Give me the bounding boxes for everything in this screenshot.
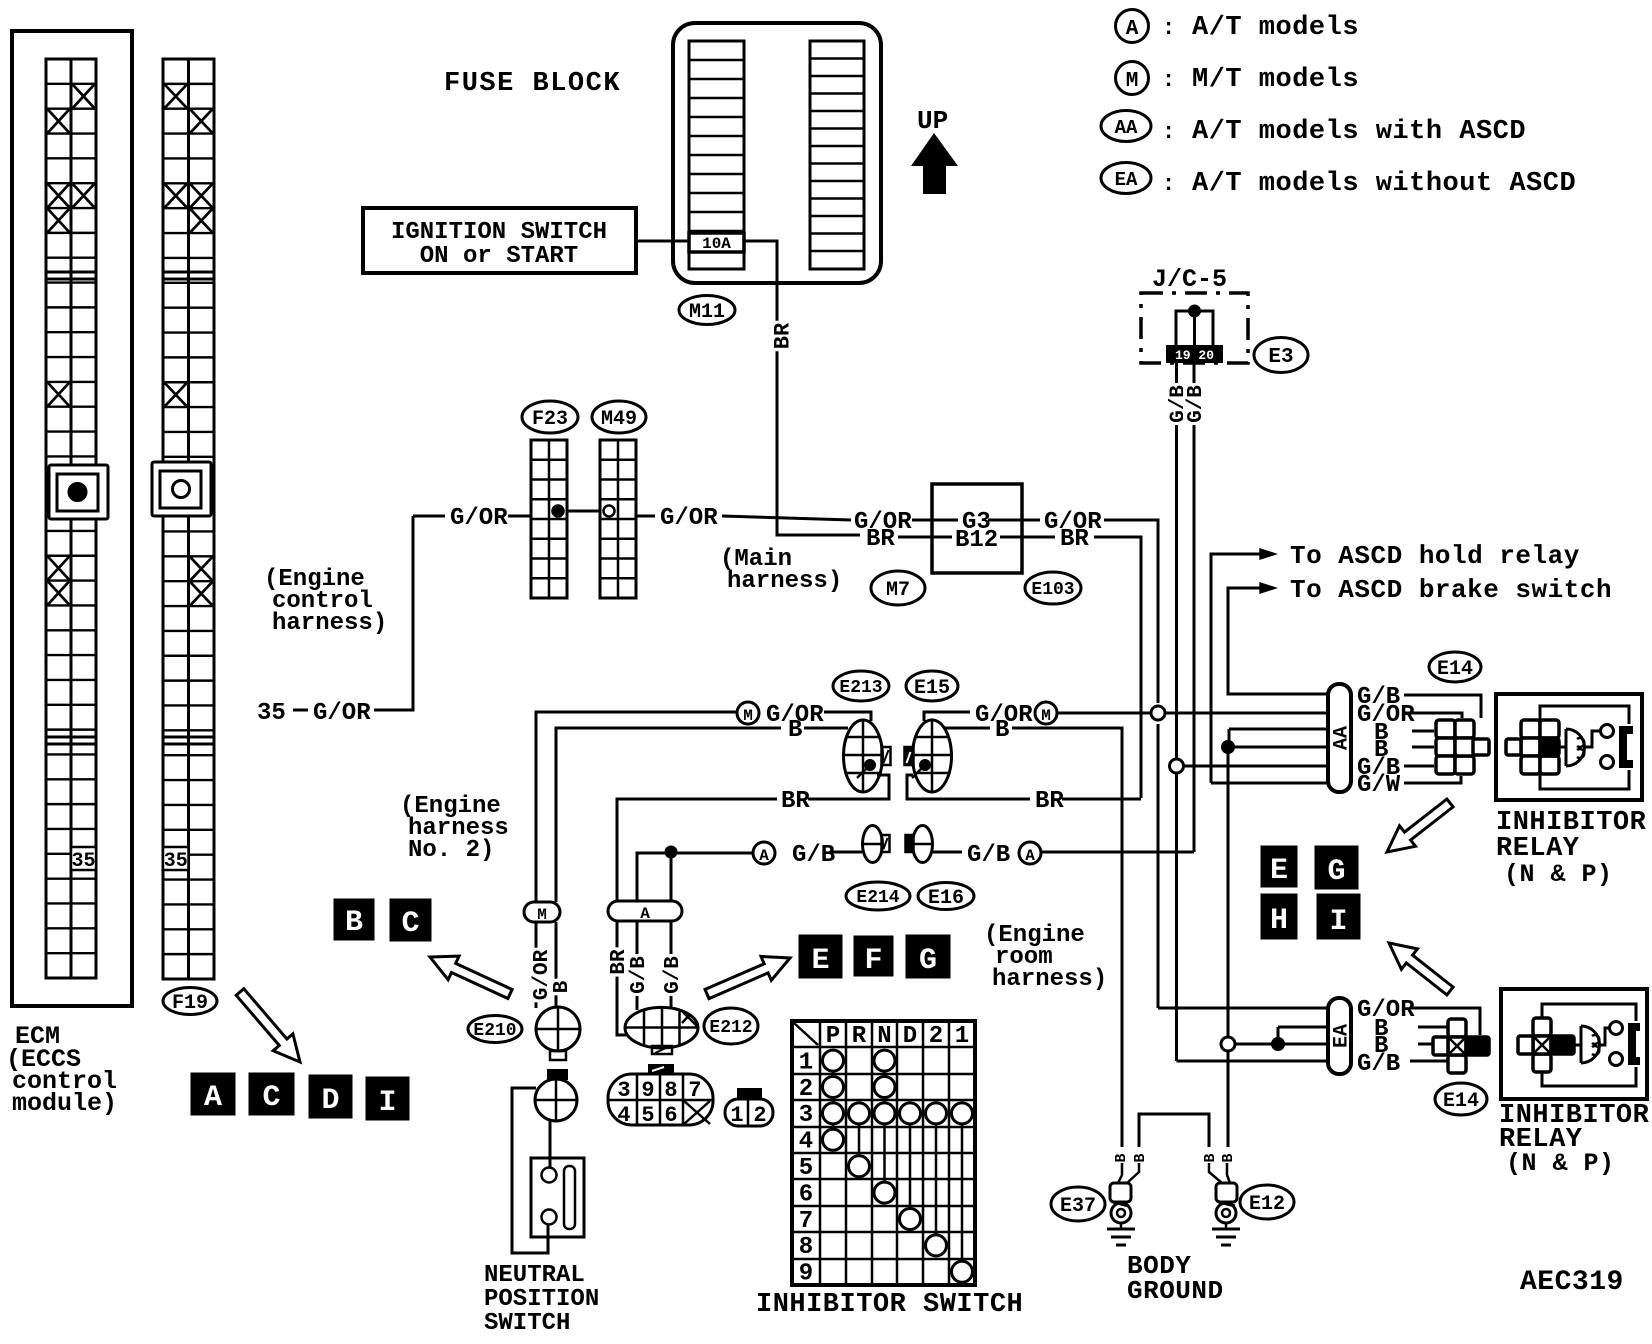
svg-text:module): module): [12, 1089, 117, 1118]
marker box E2: [1262, 847, 1296, 886]
svg-text:AEC319: AEC319: [1520, 1267, 1624, 1298]
connector E14 oval label: [1429, 652, 1481, 682]
wire B AA pin4: [1228, 746, 1328, 749]
svg-text:3: 3: [799, 1102, 813, 1129]
connector 1-2 pill: [725, 1099, 773, 1126]
inhibitor switch table: [792, 1021, 975, 1285]
svg-text:E214: E214: [856, 888, 899, 908]
svg-text:M11: M11: [689, 301, 725, 324]
connector E14 bottom body: [1448, 1019, 1466, 1037]
svg-text:UP: UP: [917, 106, 948, 136]
legend symbol M circle: [1116, 62, 1149, 95]
relay connector cluster bottom: [1533, 1018, 1551, 1036]
connector E12 oval label: [1240, 1185, 1294, 1219]
svg-text:M: M: [1041, 707, 1051, 725]
svg-text:To ASCD hold relay: To ASCD hold relay: [1290, 541, 1580, 571]
svg-text:1: 1: [799, 1049, 813, 1076]
marker box H: [1262, 895, 1296, 938]
F23 terminal dot: [553, 506, 564, 517]
connector AA pill: [1328, 684, 1351, 792]
fuse column left: [689, 41, 744, 269]
wire G/B right from E16: [931, 851, 962, 854]
wire G/OR right of M49: [637, 515, 655, 518]
svg-text:19 20: 19 20: [1175, 348, 1214, 363]
svg-text:I: I: [1329, 905, 1347, 939]
connector M pill: [524, 902, 560, 922]
junction circle on G/OR wire: [1151, 706, 1165, 720]
svg-text:BR: BR: [781, 788, 810, 815]
ground bridge wire E37-E12: [1139, 1114, 1209, 1147]
svg-text:EA: EA: [1330, 1024, 1353, 1048]
wire to ASCD brake switch: [1228, 588, 1261, 694]
connector A pill: [608, 901, 682, 921]
wire G/B AA pin5 from J/C-5: [1177, 765, 1329, 768]
wire loop neutral position switch: [512, 1088, 548, 1253]
connector 3-9-8-7 pill: [608, 1074, 713, 1125]
svg-text:E: E: [1270, 854, 1288, 888]
svg-text:6: 6: [799, 1181, 813, 1208]
svg-text::: :: [1162, 120, 1175, 145]
relay connector cluster top: [1521, 720, 1540, 738]
svg-text:C: C: [262, 1081, 280, 1115]
wire from ECM pin 35 up to F23: [374, 516, 413, 710]
svg-text:harness): harness): [992, 966, 1107, 993]
svg-text:AA: AA: [1115, 117, 1138, 139]
IGNITION SWITCH box: [363, 208, 636, 273]
connector E16 oval label: [918, 883, 974, 910]
svg-text:2: 2: [799, 1076, 813, 1103]
svg-text:2: 2: [929, 1023, 943, 1050]
svg-text:G/B: G/B: [662, 956, 685, 994]
svg-text:(N & P): (N & P): [1504, 860, 1613, 889]
wire B to EA pin3: [1228, 1043, 1328, 1046]
wire G/B to AA pin1: [1228, 588, 1328, 694]
wire G/B from J/C-5 pin 19 down: [1175, 362, 1178, 764]
svg-text:A: A: [640, 905, 650, 923]
wire G/OR below M pill: [535, 922, 538, 1008]
ground connector E37: [1118, 1163, 1122, 1183]
arrow from E14 bottom to E G H I markers: [1389, 943, 1453, 995]
ECM strip 2 terminal circle: [173, 481, 190, 498]
svg-text:M: M: [1126, 70, 1139, 93]
1-2 pill top tab: [738, 1089, 761, 1099]
svg-text:NEUTRAL: NEUTRAL: [484, 1262, 585, 1289]
connector E214 body: [863, 826, 883, 863]
svg-text:M49: M49: [601, 408, 637, 431]
svg-text:(N & P): (N & P): [1506, 1149, 1615, 1178]
marker box D: [310, 1076, 351, 1117]
marker box C2: [391, 900, 430, 940]
connector F23 grid: [531, 440, 567, 598]
svg-text::: :: [1162, 68, 1175, 93]
svg-text:C: C: [401, 907, 419, 941]
svg-text:E: E: [811, 944, 829, 978]
wires AA labels to E14: [1404, 695, 1481, 718]
wire to ASCD hold relay: [1211, 554, 1261, 783]
svg-text:F23: F23: [532, 408, 568, 431]
svg-text:FUSE BLOCK: FUSE BLOCK: [444, 69, 621, 99]
ECM connector strip 2 (F19): [163, 59, 214, 979]
svg-text:G: G: [1327, 855, 1345, 889]
svg-text:G/B: G/B: [628, 956, 651, 994]
junction connector J/C-5 dashed box: [1141, 293, 1248, 363]
relay contacts bottom: [1610, 1022, 1623, 1035]
svg-text:P: P: [826, 1023, 840, 1050]
connector M49 grid: [600, 440, 636, 598]
connector M7 oval: [871, 571, 925, 605]
svg-text:BR: BR: [1035, 788, 1064, 815]
relay contacts top: [1601, 725, 1614, 738]
svg-text:E103: E103: [1031, 580, 1074, 600]
svg-text:A/T models: A/T models: [1192, 13, 1359, 43]
svg-text:F: F: [864, 944, 882, 978]
svg-text:F19: F19: [172, 992, 208, 1015]
svg-text:INHIBITOR SWITCH: INHIBITOR SWITCH: [756, 1290, 1023, 1320]
svg-text::: :: [1162, 172, 1175, 197]
svg-text:B: B: [1202, 1153, 1219, 1162]
svg-text:G/B: G/B: [1185, 385, 1208, 423]
connector E14 bottom oval label: [1435, 1083, 1487, 1115]
svg-text:A: A: [204, 1081, 222, 1115]
junction circle G/B pin5: [1170, 759, 1184, 773]
svg-text:I: I: [378, 1086, 396, 1120]
wire B to EA pin2: [1278, 1026, 1328, 1029]
svg-text:E14: E14: [1443, 1090, 1479, 1113]
connector E210 oval label: [468, 1016, 522, 1043]
wire BR from fuse 10A down to main harness: [744, 241, 860, 535]
svg-text:E12: E12: [1249, 1193, 1285, 1216]
wire BR left to E213: [617, 799, 777, 901]
svg-text:E16: E16: [928, 887, 964, 910]
connector M11 oval: [679, 296, 735, 325]
svg-text:D: D: [321, 1084, 339, 1118]
ground symbol E37: [1120, 1223, 1123, 1229]
svg-text:M: M: [743, 707, 753, 725]
svg-text:2: 2: [753, 1103, 766, 1128]
connector M49 oval: [592, 401, 646, 433]
svg-text:POSITION: POSITION: [484, 1286, 599, 1313]
marker box F: [855, 937, 892, 975]
svg-text:B: B: [1220, 1153, 1237, 1162]
svg-text:B12: B12: [955, 527, 998, 554]
wire G/OR right from E15 to AA: [924, 712, 970, 721]
legend symbol AA oval: [1101, 111, 1151, 142]
marker box B: [335, 900, 373, 939]
svg-text:A/T models without ASCD: A/T models without ASCD: [1192, 169, 1576, 199]
connector E214 oval label: [846, 882, 910, 910]
svg-text:R: R: [852, 1023, 867, 1050]
svg-text:A/T models with ASCD: A/T models with ASCD: [1192, 117, 1526, 147]
junction circle EA B pin3: [1221, 1037, 1235, 1051]
connector E210 body: [536, 1007, 580, 1051]
svg-text:BR: BR: [770, 322, 795, 349]
svg-text:E15: E15: [914, 677, 950, 700]
svg-text:E210: E210: [473, 1021, 516, 1041]
svg-text:E212: E212: [709, 1018, 752, 1038]
ground connector E12: [1209, 1163, 1222, 1183]
marker box I2: [1318, 895, 1359, 938]
marker box C: [250, 1074, 293, 1114]
wire B left to E213: [556, 728, 781, 902]
svg-text:BR: BR: [866, 526, 895, 553]
wire label B ground 4: [1219, 1151, 1235, 1164]
svg-text:IGNITION SWITCH: IGNITION SWITCH: [391, 219, 607, 246]
svg-text:N: N: [877, 1023, 891, 1050]
fuse 10A cell: [689, 233, 744, 252]
svg-text:4: 4: [617, 1103, 630, 1128]
svg-text:6: 6: [664, 1103, 677, 1128]
wire BR below A pill to E212: [617, 921, 626, 1035]
connector below E210 body: [548, 1070, 567, 1079]
svg-text:5: 5: [799, 1155, 813, 1182]
3987 pill top tab: [649, 1065, 673, 1074]
UP arrow: [911, 133, 958, 194]
wire G/B left with junction dot: [637, 853, 666, 901]
svg-text:BR: BR: [1060, 526, 1089, 553]
wire B below M pill: [555, 922, 558, 1008]
svg-text:E14: E14: [1437, 658, 1473, 681]
wire E210 to neutral position switch: [549, 1121, 552, 1168]
connector E14 body: [1436, 720, 1455, 738]
relay internal wires top: [1540, 706, 1629, 724]
junction box G3/B12: [932, 484, 1022, 573]
svg-text:1: 1: [730, 1103, 743, 1128]
wire F23-M49 link: [567, 510, 600, 513]
relay coil bottom: [1581, 1026, 1600, 1063]
arrow to E F G markers: [705, 956, 790, 998]
svg-text:B: B: [1113, 1153, 1130, 1162]
svg-text:B: B: [1132, 1153, 1149, 1162]
node dot EA B junction: [1272, 1038, 1284, 1050]
svg-text:B: B: [788, 717, 802, 744]
svg-text:8: 8: [799, 1234, 813, 1261]
connector F19 oval: [163, 988, 217, 1015]
node A circle left: [753, 842, 775, 864]
relay switch bracket top: [1619, 726, 1633, 768]
svg-text:G/B: G/B: [967, 842, 1010, 869]
svg-text:E3: E3: [1268, 346, 1293, 369]
svg-text:A: A: [759, 847, 769, 865]
connector EA pill: [1328, 998, 1351, 1074]
neutral position switch box: [531, 1158, 584, 1237]
svg-text::: :: [1162, 16, 1175, 41]
wire G/OR to EA pin1: [1158, 1007, 1328, 1010]
svg-text:G/B: G/B: [1357, 1051, 1400, 1078]
legend symbol EA oval: [1101, 163, 1151, 194]
svg-text:G/W: G/W: [1357, 772, 1401, 799]
relay switch bracket bottom: [1628, 1023, 1640, 1065]
fuse column right: [810, 41, 864, 269]
wire G/B to EA pin4: [1177, 1060, 1329, 1063]
J/C-5 internal pins: [1176, 311, 1213, 348]
ECM (ECCS control module) box: [12, 31, 132, 1006]
svg-text:G/OR: G/OR: [313, 700, 371, 727]
node M circle right: [1035, 702, 1057, 724]
relay coil top: [1566, 729, 1585, 766]
wire label BR vertical: [770, 321, 793, 351]
svg-text:AA: AA: [1330, 726, 1353, 750]
svg-text:harness): harness): [727, 568, 842, 595]
wire G/B from J/C-5 pin 20 down to A-circle wire: [1193, 362, 1196, 852]
legend symbol A circle: [1116, 10, 1149, 43]
svg-text:E213: E213: [839, 678, 882, 698]
table header diagonal: [794, 1023, 818, 1045]
connector F23 oval: [522, 401, 578, 433]
svg-text:No. 2): No. 2): [408, 837, 494, 864]
svg-text:G/OR: G/OR: [450, 505, 508, 532]
connector E3 oval: [1254, 338, 1308, 373]
ECM strip 1 terminal dot: [69, 484, 86, 501]
svg-text:A: A: [1126, 18, 1139, 41]
connector E15 oval label: [906, 671, 958, 701]
inhibitor relay box top: [1496, 694, 1642, 800]
svg-text:B: B: [345, 906, 363, 940]
ground symbol E12: [1225, 1223, 1228, 1229]
wire G/W AA pin6: [1211, 782, 1328, 785]
svg-text:harness): harness): [272, 610, 387, 637]
svg-text:A: A: [1025, 847, 1035, 865]
svg-text:G/B: G/B: [792, 842, 835, 869]
svg-text:G/OR: G/OR: [660, 505, 718, 532]
svg-text:7: 7: [799, 1208, 813, 1235]
connector E37 oval label: [1051, 1187, 1105, 1221]
svg-text:B: B: [995, 717, 1009, 744]
marker box I: [367, 1078, 408, 1119]
svg-text:E37: E37: [1060, 1195, 1096, 1218]
connector E212 oval label: [704, 1008, 758, 1044]
wire ignition switch to fuse: [636, 240, 689, 243]
svg-text:M7: M7: [886, 579, 910, 602]
wire label B ground 2: [1131, 1151, 1147, 1164]
svg-text:8: 8: [664, 1078, 677, 1103]
marker box G2: [1316, 847, 1357, 888]
svg-text:35: 35: [257, 700, 286, 727]
svg-text:ON or START: ON or START: [420, 243, 578, 270]
svg-text:J/C-5: J/C-5: [1152, 265, 1227, 294]
arrow to B C markers: [430, 956, 512, 998]
svg-text:G: G: [919, 944, 937, 978]
svg-text:35: 35: [71, 850, 95, 873]
arrow to A C D I markers: [236, 989, 300, 1062]
wire G/B 2 below A pill to E212: [670, 921, 673, 1009]
svg-text:M: M: [537, 906, 547, 924]
node A circle right: [1019, 842, 1041, 864]
svg-text:4: 4: [799, 1129, 813, 1156]
wire label B ground 3: [1201, 1151, 1217, 1164]
svg-text:35: 35: [164, 850, 188, 873]
svg-text:D: D: [903, 1023, 917, 1050]
marker box E: [800, 936, 841, 977]
wire B vertical AA pins3-4 down to E12 ground: [1228, 729, 1231, 747]
wire G/OR left of F23: [508, 515, 531, 518]
svg-text:10A: 10A: [702, 235, 731, 253]
marker box G: [907, 936, 949, 977]
svg-text:SWITCH: SWITCH: [484, 1310, 570, 1337]
M49 terminal circle: [604, 506, 615, 517]
connector E16 body: [913, 826, 933, 863]
svg-text:3: 3: [617, 1078, 630, 1103]
wire label B ground 1: [1112, 1151, 1128, 1164]
connector E213 oval label: [833, 671, 889, 701]
table contact circles: [823, 1050, 844, 1071]
svg-text:1: 1: [955, 1023, 969, 1050]
wire G/OR M-circle left: [536, 712, 737, 902]
arrow from E14 to E G H I markers: [1387, 799, 1453, 852]
wire BR right from E15 up to B12: [907, 775, 1030, 799]
svg-text:9: 9: [641, 1078, 654, 1103]
J/C-5 pin number strip 19-20: [1167, 346, 1222, 362]
wire B right from E15 down to E37 ground: [944, 727, 990, 730]
connector E103 oval: [1025, 572, 1081, 604]
wires EA labels to E14 bottom: [1410, 1008, 1480, 1035]
svg-text:B: B: [551, 980, 574, 993]
svg-text:M/T models: M/T models: [1192, 65, 1359, 95]
marker box A: [192, 1074, 234, 1114]
svg-text:7: 7: [688, 1078, 701, 1103]
svg-text:9: 9: [799, 1261, 813, 1288]
svg-text:EA: EA: [1115, 169, 1138, 191]
inhibitor relay box bottom: [1501, 989, 1647, 1099]
svg-text:H: H: [1270, 904, 1288, 938]
svg-text:5: 5: [641, 1103, 654, 1128]
relay internal wires bottom: [1542, 1004, 1636, 1021]
node dot AA B junction: [1222, 741, 1234, 753]
svg-text:GROUND: GROUND: [1127, 1276, 1224, 1306]
wire G/B below A pill to E212: [636, 921, 639, 1010]
table contact lines: [833, 1061, 962, 1272]
ECM connector strip 1 (in box): [46, 59, 96, 978]
fuse block outline: [673, 23, 881, 283]
node M circle left: [737, 702, 759, 724]
wire B AA pin3: [1229, 728, 1328, 731]
svg-text:To ASCD brake switch: To ASCD brake switch: [1290, 575, 1612, 605]
